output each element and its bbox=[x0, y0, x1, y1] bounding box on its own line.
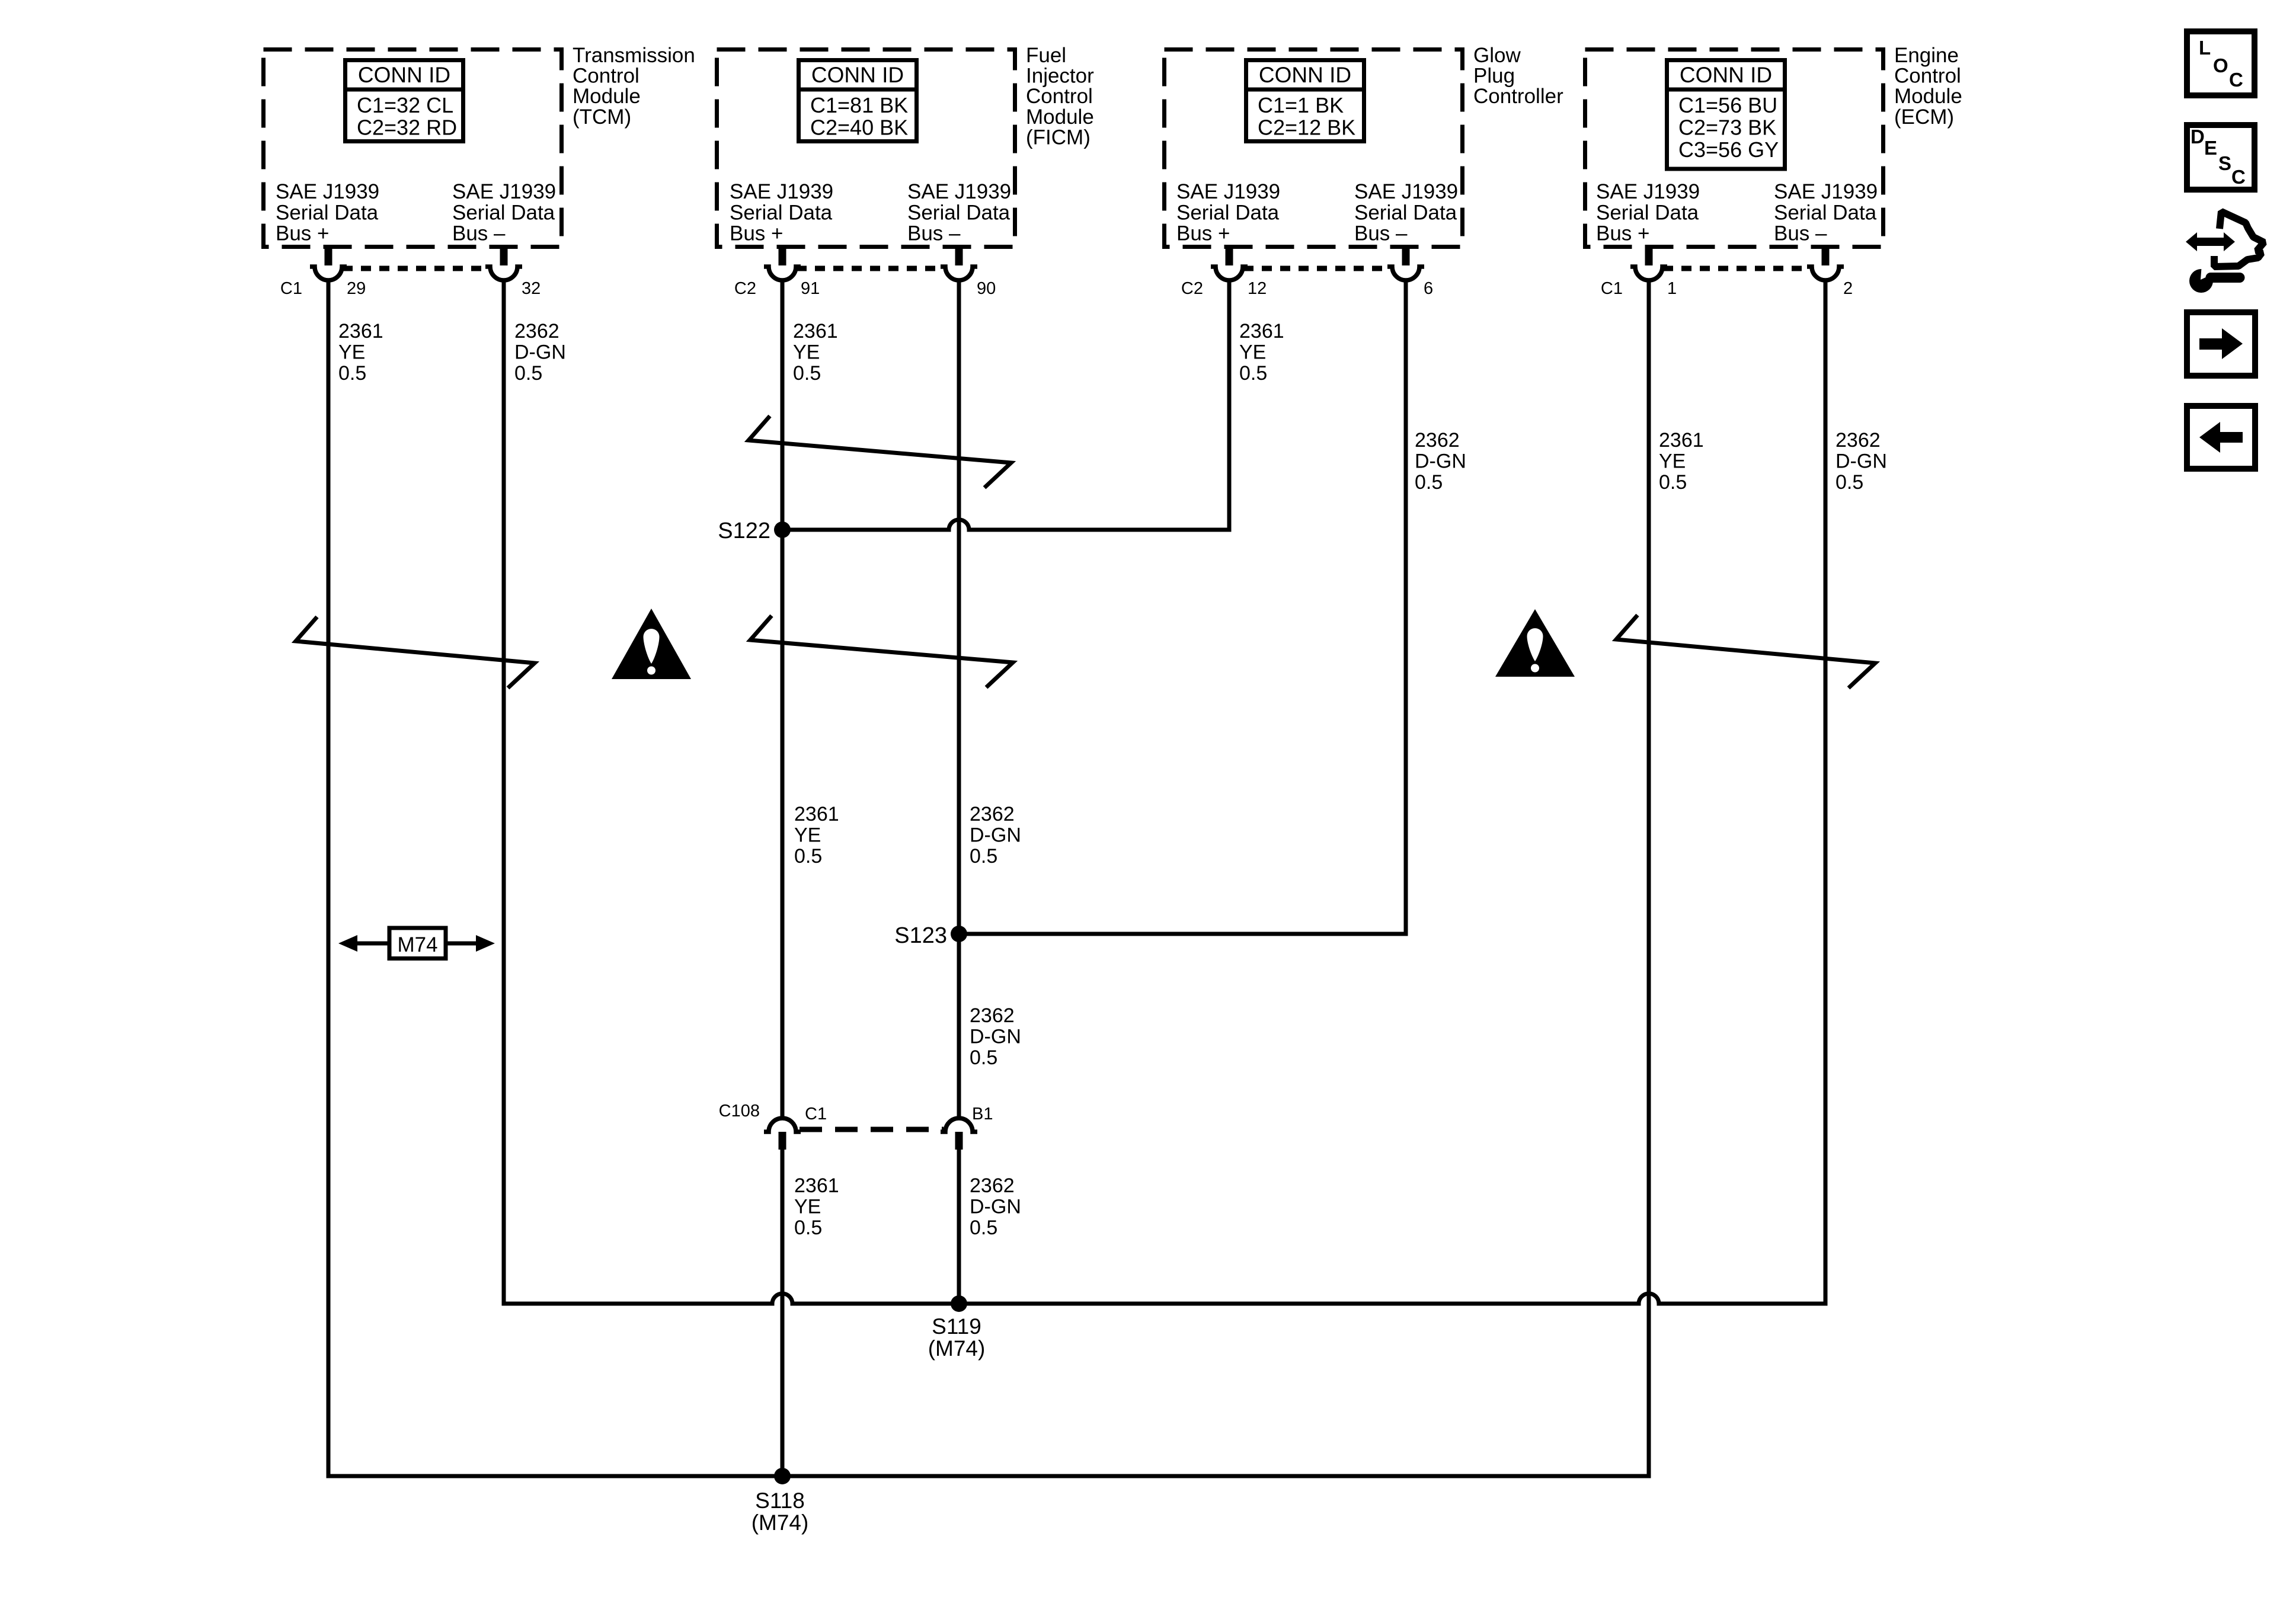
svg-text:0.5: 0.5 bbox=[1835, 471, 1863, 494]
svg-text:2361: 2361 bbox=[338, 320, 383, 343]
CONN ID table GlowPlug bbox=[1244, 60, 1366, 142]
svg-text:2361: 2361 bbox=[794, 1174, 839, 1197]
svg-text:C2=12 BK: C2=12 BK bbox=[1258, 116, 1355, 140]
svg-text:(ECM): (ECM) bbox=[1894, 105, 1954, 129]
connector terminal GlowPlug pin 12 (Bus +) bbox=[1211, 245, 1248, 280]
wire 2361 YE 0.5 : FICM pin 91 down to connector C108 C1 bbox=[781, 279, 785, 1118]
wire 2362 D-GN 0.5 serial data bus &#8722; : TCM pin 32 down, cross run with hops, up to ECM pin 2 bbox=[504, 279, 1825, 1304]
wire 2361 YE 0.5 : connector C108 C1 down to splice S118 bbox=[781, 1150, 785, 1476]
wire label 2361 YE 0.5 label at Glow Plug pin 12 bbox=[1239, 320, 1284, 385]
svg-text:S122: S122 bbox=[718, 518, 770, 543]
svg-text:S123: S123 bbox=[894, 923, 947, 948]
svg-text:32: 32 bbox=[522, 279, 541, 298]
svg-text:C2=73 BK: C2=73 BK bbox=[1678, 116, 1776, 140]
svg-text:(TCM): (TCM) bbox=[573, 105, 631, 129]
warning triangle (right) bbox=[1495, 609, 1575, 677]
connector C108 terminal C1 (bus +) bbox=[764, 1118, 801, 1150]
CONN ID table FICM bbox=[797, 60, 919, 142]
svg-text:0.5: 0.5 bbox=[793, 362, 821, 385]
svg-text:SAE J1939: SAE J1939 bbox=[730, 180, 833, 203]
svg-text:Bus +: Bus + bbox=[276, 222, 329, 245]
svg-text:O: O bbox=[2213, 55, 2228, 76]
svg-text:Bus –: Bus – bbox=[907, 222, 961, 245]
svg-text:Serial Data: Serial Data bbox=[1176, 201, 1280, 224]
svg-text:Bus –: Bus – bbox=[1354, 222, 1408, 245]
wire 2362 D-GN 0.5 : FICM pin 90 down to connector C108 B1 bbox=[957, 279, 961, 1118]
svg-text:CONN ID: CONN ID bbox=[358, 63, 450, 87]
svg-text:1: 1 bbox=[1667, 279, 1677, 298]
svg-text:SAE J1939: SAE J1939 bbox=[452, 180, 556, 203]
svg-text:C108: C108 bbox=[719, 1102, 760, 1121]
connector terminal TCM pin 32 (Bus &#8722;) bbox=[485, 245, 522, 280]
svg-text:C2=32 RD: C2=32 RD bbox=[357, 116, 457, 140]
svg-text:2362: 2362 bbox=[970, 1174, 1015, 1197]
wire label 2361 YE 0.5 label at ECM pin 1 bbox=[1659, 429, 1704, 494]
connector terminal FICM pin 91 (Bus +) bbox=[764, 245, 801, 280]
svg-text:Injector: Injector bbox=[1026, 65, 1094, 88]
harness break symbol on TCM bus wires bbox=[296, 617, 535, 688]
svg-text:S: S bbox=[2218, 152, 2231, 174]
svg-text:C2: C2 bbox=[734, 279, 756, 298]
connector dashed link GlowPlug bbox=[1243, 266, 1390, 271]
svg-text:SAE J1939: SAE J1939 bbox=[1354, 180, 1458, 203]
svg-text:CONN ID: CONN ID bbox=[1680, 63, 1772, 87]
svg-text:Serial Data: Serial Data bbox=[730, 201, 833, 224]
wire 2362 D-GN 0.5 : connector C108 B1 down to splice S119 bbox=[957, 1150, 961, 1304]
wire label 2361 YE 0.5 label below C108 C1 bbox=[794, 1174, 839, 1239]
svg-text:0.5: 0.5 bbox=[514, 362, 542, 385]
svg-text:CONN ID: CONN ID bbox=[811, 63, 904, 87]
svg-text:0.5: 0.5 bbox=[970, 1046, 997, 1069]
svg-text:Control: Control bbox=[1026, 85, 1093, 108]
svg-text:Bus +: Bus + bbox=[730, 222, 783, 245]
wire label 2362 D-GN 0.5 label below C108 B1 bbox=[970, 1174, 1021, 1239]
icon back arrow box bbox=[2187, 406, 2255, 469]
connector dashed link FICM bbox=[797, 266, 944, 271]
icon DESC box bbox=[2187, 125, 2255, 190]
svg-text:D: D bbox=[2191, 126, 2205, 148]
svg-text:SAE J1939: SAE J1939 bbox=[1176, 180, 1280, 203]
svg-text:Control: Control bbox=[1894, 65, 1961, 88]
svg-text:C3=56 GY: C3=56 GY bbox=[1678, 137, 1779, 162]
svg-text:Control: Control bbox=[573, 65, 639, 88]
svg-text:2362: 2362 bbox=[970, 1004, 1015, 1027]
svg-text:0.5: 0.5 bbox=[1239, 362, 1267, 385]
connector C108 terminal B1 (bus &#8722;) bbox=[941, 1118, 977, 1150]
svg-text:0.5: 0.5 bbox=[794, 845, 822, 868]
svg-text:B1: B1 bbox=[972, 1105, 993, 1124]
svg-text:D-GN: D-GN bbox=[970, 1196, 1021, 1218]
svg-text:D-GN: D-GN bbox=[514, 341, 566, 364]
svg-text:2361: 2361 bbox=[794, 803, 839, 825]
connector terminal FICM pin 90 (Bus &#8722;) bbox=[941, 245, 977, 280]
svg-text:Controller: Controller bbox=[1473, 85, 1563, 108]
harness break symbol on FICM bus wires (upper) bbox=[749, 416, 1011, 488]
svg-text:91: 91 bbox=[801, 279, 820, 298]
svg-text:C1=81 BK: C1=81 BK bbox=[810, 93, 908, 117]
wire 2361 YE 0.5 serial data bus + : TCM pin 29 down, bottom run, up to ECM pin 1 bbox=[328, 279, 1649, 1476]
icon LOC box bbox=[2187, 31, 2255, 95]
svg-text:Serial Data: Serial Data bbox=[1774, 201, 1877, 224]
svg-text:2: 2 bbox=[1843, 279, 1853, 298]
svg-text:Fuel: Fuel bbox=[1026, 44, 1066, 67]
svg-text:M74: M74 bbox=[397, 933, 437, 956]
svg-text:D-GN: D-GN bbox=[970, 1026, 1021, 1048]
wire label 2362 D-GN 0.5 label mid FICM bus &#8722; bbox=[970, 803, 1021, 868]
svg-text:S119: S119 bbox=[932, 1314, 981, 1339]
svg-text:29: 29 bbox=[347, 279, 366, 298]
svg-text:2361: 2361 bbox=[1659, 429, 1704, 452]
splice S119 (M74) bbox=[928, 1295, 986, 1361]
harness marker M74 with arrows bbox=[338, 928, 495, 959]
svg-text:C1=56 BU: C1=56 BU bbox=[1678, 93, 1777, 117]
svg-text:C2: C2 bbox=[1181, 279, 1203, 298]
svg-text:L: L bbox=[2199, 37, 2211, 59]
svg-text:D-GN: D-GN bbox=[1835, 450, 1887, 473]
wire label 2362 D-GN 0.5 label at Glow Plug pin 6 bbox=[1415, 429, 1466, 494]
splice S123 bbox=[894, 923, 967, 948]
svg-text:C: C bbox=[2229, 69, 2243, 91]
svg-text:(M74): (M74) bbox=[752, 1510, 809, 1535]
svg-text:C1: C1 bbox=[1601, 279, 1623, 298]
svg-text:2362: 2362 bbox=[514, 320, 559, 343]
wire label 2361 YE 0.5 label at TCM pin 29 bbox=[338, 320, 383, 385]
svg-text:YE: YE bbox=[794, 1196, 821, 1218]
CONN ID table TCM bbox=[343, 60, 465, 142]
module box ECM (Engine Control Module (ECM)) bbox=[1585, 50, 1884, 247]
svg-text:C2=40 BK: C2=40 BK bbox=[810, 116, 908, 140]
svg-text:C1: C1 bbox=[805, 1105, 827, 1124]
wire label 2361 YE 0.5 label mid FICM bus + bbox=[794, 803, 839, 868]
svg-text:(FICM): (FICM) bbox=[1026, 126, 1091, 149]
connector dashed link ECM bbox=[1663, 266, 1810, 271]
svg-text:Bus +: Bus + bbox=[1596, 222, 1649, 245]
wire label 2362 D-GN 0.5 label at TCM pin 32 bbox=[514, 320, 566, 385]
warning triangle (left) bbox=[612, 609, 691, 679]
svg-text:2362: 2362 bbox=[1415, 429, 1460, 452]
connector terminal ECM pin 1 (Bus +) bbox=[1630, 245, 1667, 280]
svg-text:90: 90 bbox=[977, 279, 996, 298]
CONN ID table ECM bbox=[1665, 60, 1787, 169]
wire label 2362 D-GN 0.5 label below S123 bbox=[970, 1004, 1021, 1069]
svg-text:2362: 2362 bbox=[1835, 429, 1881, 452]
svg-text:0.5: 0.5 bbox=[338, 362, 366, 385]
svg-text:Serial Data: Serial Data bbox=[907, 201, 1011, 224]
svg-text:E: E bbox=[2204, 137, 2217, 159]
connector C108 dashed link bbox=[800, 1127, 944, 1132]
svg-text:Engine: Engine bbox=[1894, 44, 1959, 67]
svg-text:Serial Data: Serial Data bbox=[276, 201, 379, 224]
splice S122 bbox=[718, 518, 791, 543]
wire label 2361 YE 0.5 label at FICM pin 91 bbox=[793, 320, 838, 385]
svg-text:Bus –: Bus – bbox=[1774, 222, 1827, 245]
svg-text:S118: S118 bbox=[755, 1489, 805, 1513]
svg-text:Module: Module bbox=[573, 85, 641, 108]
svg-text:0.5: 0.5 bbox=[970, 845, 997, 868]
wire label 2362 D-GN 0.5 label at ECM pin 2 bbox=[1835, 429, 1887, 494]
connector terminal GlowPlug pin 6 (Bus &#8722;) bbox=[1387, 245, 1424, 280]
svg-text:12: 12 bbox=[1248, 279, 1267, 298]
svg-text:0.5: 0.5 bbox=[794, 1217, 822, 1239]
svg-text:C1=1 BK: C1=1 BK bbox=[1258, 93, 1344, 117]
splice S118 (M74) bbox=[752, 1468, 809, 1535]
svg-text:Plug: Plug bbox=[1473, 65, 1515, 88]
svg-text:SAE J1939: SAE J1939 bbox=[276, 180, 379, 203]
harness break symbol on FICM bus wires (lower) bbox=[750, 616, 1013, 687]
svg-text:Serial Data: Serial Data bbox=[1596, 201, 1699, 224]
svg-text:Transmission: Transmission bbox=[573, 44, 695, 67]
svg-text:YE: YE bbox=[794, 824, 821, 847]
svg-text:2361: 2361 bbox=[1239, 320, 1284, 343]
connector terminal ECM pin 2 (Bus &#8722;) bbox=[1807, 245, 1844, 280]
svg-text:Module: Module bbox=[1894, 85, 1962, 108]
svg-text:Glow: Glow bbox=[1473, 44, 1521, 67]
svg-text:(M74): (M74) bbox=[928, 1336, 986, 1361]
svg-text:CONN ID: CONN ID bbox=[1259, 63, 1351, 87]
svg-text:Serial Data: Serial Data bbox=[1354, 201, 1457, 224]
svg-text:Serial Data: Serial Data bbox=[452, 201, 555, 224]
svg-text:Bus –: Bus – bbox=[452, 222, 506, 245]
harness break symbol on ECM bus wires bbox=[1616, 615, 1875, 688]
icon forward arrow box bbox=[2187, 312, 2255, 376]
svg-text:0.5: 0.5 bbox=[970, 1217, 997, 1239]
wire 2361 YE 0.5 : Glow Plug pin 12 down and left to splice S122 (hop over bus &#8722; wire) bbox=[782, 279, 1229, 530]
svg-text:2362: 2362 bbox=[970, 803, 1015, 825]
svg-text:SAE J1939: SAE J1939 bbox=[1774, 180, 1878, 203]
svg-text:YE: YE bbox=[1659, 450, 1686, 473]
svg-text:Module: Module bbox=[1026, 105, 1094, 129]
svg-text:YE: YE bbox=[793, 341, 820, 364]
svg-text:0.5: 0.5 bbox=[1415, 471, 1443, 494]
svg-text:C1: C1 bbox=[280, 279, 302, 298]
icon electrical reference (double arrow, outline, wrench) bbox=[2186, 212, 2264, 293]
svg-text:2361: 2361 bbox=[793, 320, 838, 343]
connector dashed link TCM bbox=[343, 266, 488, 271]
svg-text:SAE J1939: SAE J1939 bbox=[1596, 180, 1700, 203]
module box GlowPlug (Glow Plug Controller) bbox=[1165, 50, 1463, 247]
svg-text:C: C bbox=[2231, 166, 2246, 188]
wire 2362 D-GN 0.5 : Glow Plug pin 6 down and left to splice S123 bbox=[959, 279, 1406, 934]
module box TCM (Transmission Control Module (TCM)) bbox=[264, 50, 562, 247]
svg-text:SAE J1939: SAE J1939 bbox=[907, 180, 1011, 203]
connector terminal TCM pin 29 (Bus +) bbox=[310, 245, 347, 280]
svg-text:YE: YE bbox=[338, 341, 365, 364]
svg-text:0.5: 0.5 bbox=[1659, 471, 1687, 494]
svg-text:D-GN: D-GN bbox=[970, 824, 1021, 847]
svg-text:6: 6 bbox=[1424, 279, 1433, 298]
svg-text:C1=32 CL: C1=32 CL bbox=[357, 93, 453, 117]
svg-text:D-GN: D-GN bbox=[1415, 450, 1466, 473]
svg-text:YE: YE bbox=[1239, 341, 1266, 364]
module box FICM (Fuel Injector Control Module (FICM)) bbox=[717, 50, 1015, 247]
svg-text:Bus +: Bus + bbox=[1176, 222, 1230, 245]
